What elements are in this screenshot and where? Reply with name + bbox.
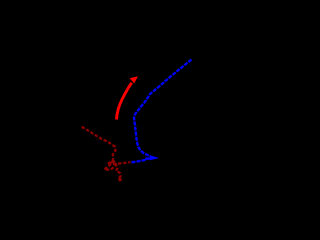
dark red chattering trajectory (dashed descending squiggle) <box>82 127 121 181</box>
dark red end blob <box>118 178 122 182</box>
red direction arrow shaft (bright red curved arrow) <box>117 83 132 120</box>
blue arrow bar <box>145 157 151 159</box>
blue trajectory (dashed curve from upper right down to sliding corner) <box>134 60 192 157</box>
blue arrowhead (pointing right at end of trajectory) <box>150 155 159 160</box>
red arrowhead <box>130 76 138 83</box>
blue sliding-segment dashes (left of arrow) <box>132 160 147 163</box>
dark red sliding-line branch (dashes toward blue arrow) <box>113 162 131 164</box>
